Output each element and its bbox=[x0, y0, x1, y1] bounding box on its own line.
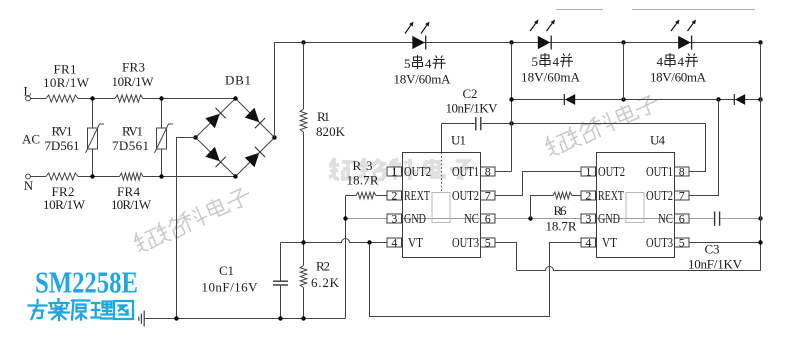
wire FR3 to bridge top bbox=[143, 98, 236, 100]
svg-text:GND: GND bbox=[404, 211, 426, 226]
watermark rotated lower-left 钲铭科电子 bbox=[131, 184, 254, 255]
wire x511 column bbox=[511, 43, 513, 172]
svg-text:10nF/1KV: 10nF/1KV bbox=[688, 257, 743, 272]
terminal L bbox=[26, 96, 31, 101]
svg-text:R1: R1 bbox=[317, 109, 330, 124]
svg-text:6.2K: 6.2K bbox=[311, 275, 340, 290]
node VT-R1R2 bbox=[301, 240, 305, 244]
svg-text:NC: NC bbox=[464, 211, 479, 226]
node RV1 bottom bbox=[90, 174, 94, 178]
svg-text:U4: U4 bbox=[650, 133, 666, 148]
svg-text:1: 1 bbox=[585, 165, 591, 179]
LED string 3 bbox=[671, 20, 696, 50]
svg-text:C1: C1 bbox=[219, 263, 234, 278]
wire N to FR2 bbox=[30, 176, 46, 178]
capacitor C1 bbox=[202, 243, 289, 319]
varistor RV1 left bbox=[45, 124, 105, 154]
wire x623 column bbox=[623, 43, 625, 100]
resistor FR3 bbox=[112, 60, 155, 103]
wire FR2 to FR4 bbox=[78, 176, 120, 178]
wire U1 pin5 down bbox=[495, 243, 517, 271]
node rail x511 bbox=[509, 40, 513, 44]
wire U1 pin8 to x511 bbox=[495, 171, 512, 173]
node RV2 top bbox=[159, 96, 163, 100]
wire varistor column 1 bbox=[92, 99, 94, 177]
node gnd bridge-column bbox=[174, 316, 178, 320]
node RV1 top bbox=[90, 96, 94, 100]
svg-text:OUT3: OUT3 bbox=[646, 235, 673, 250]
node GND-x345 bbox=[343, 216, 347, 220]
svg-text:RV1: RV1 bbox=[122, 124, 143, 139]
svg-text:4: 4 bbox=[585, 236, 591, 250]
watermark horizontal center 钲铭科电子 bbox=[329, 158, 474, 180]
wire OUT3 return y270 with hop bbox=[517, 267, 761, 271]
svg-text:10R/1W: 10R/1W bbox=[43, 75, 90, 90]
svg-text:5: 5 bbox=[532, 54, 539, 69]
svg-text:REXT: REXT bbox=[598, 188, 625, 203]
label string2 5串4并 bbox=[532, 53, 574, 69]
svg-text:C2: C2 bbox=[463, 86, 478, 101]
varistor RV1 right bbox=[112, 124, 173, 154]
wire right edge column bbox=[760, 43, 762, 271]
wire FR1 to FR3 bbox=[78, 98, 115, 100]
wire VT line with hop bbox=[281, 239, 388, 243]
svg-text:OUT1: OUT1 bbox=[646, 164, 673, 179]
faint top line 1 bbox=[556, 9, 603, 11]
wire L to FR1 bbox=[30, 98, 46, 100]
svg-text:4: 4 bbox=[391, 236, 397, 250]
wire ground rail bbox=[144, 318, 345, 320]
svg-text:2: 2 bbox=[391, 189, 397, 203]
svg-text:OUT2: OUT2 bbox=[646, 188, 673, 203]
resistor R6 bbox=[531, 192, 582, 233]
resistor FR2 bbox=[43, 173, 86, 212]
resistor R1 bbox=[300, 109, 345, 139]
node bypass right bbox=[758, 97, 762, 101]
svg-text:6: 6 bbox=[485, 212, 491, 226]
node bridge left bbox=[193, 135, 197, 139]
resistor FR1 bbox=[43, 62, 90, 103]
svg-text:3: 3 bbox=[391, 212, 397, 226]
node gnd R2 bbox=[301, 316, 305, 320]
node bypass x511 bbox=[509, 97, 513, 101]
svg-text:18.7R: 18.7R bbox=[347, 173, 379, 188]
wire U4 pin8 riser bbox=[690, 124, 706, 172]
node bypass x623 bbox=[621, 97, 625, 101]
LED string 2 bbox=[530, 20, 555, 50]
wire U4 pin7 riser bbox=[690, 100, 719, 196]
label string1 5串4并 bbox=[404, 55, 446, 71]
svg-text:7: 7 bbox=[679, 189, 685, 203]
svg-text:7: 7 bbox=[485, 189, 491, 203]
svg-text:5: 5 bbox=[404, 56, 411, 71]
wire GND column x345 bbox=[345, 196, 347, 319]
svg-text:5: 5 bbox=[485, 236, 491, 250]
terminal N bbox=[26, 174, 31, 179]
wire FR4 to bridge bottom bbox=[143, 176, 236, 178]
svg-text:8: 8 bbox=[679, 165, 685, 179]
capacitor C3 bbox=[688, 212, 743, 272]
svg-text:10nF/1KV: 10nF/1KV bbox=[446, 101, 499, 116]
watermark rotated upper-right 钲铭科电子 bbox=[542, 91, 662, 159]
svg-text:RV1: RV1 bbox=[52, 124, 73, 139]
svg-text:1: 1 bbox=[391, 165, 397, 179]
node rail R1 tap bbox=[301, 40, 305, 44]
svg-text:18V/60mA: 18V/60mA bbox=[394, 72, 452, 87]
wire DC+ riser and top rail bbox=[275, 43, 761, 138]
wire U1 pin7 to U4 pin1 bbox=[495, 172, 581, 196]
wire C2 left into U1 solid bbox=[441, 124, 443, 153]
faint top line 2 bbox=[632, 9, 755, 11]
svg-text:10R/1W: 10R/1W bbox=[111, 197, 152, 212]
svg-text:7D561: 7D561 bbox=[45, 138, 80, 153]
title 方案原理图 bbox=[29, 299, 134, 320]
svg-text:FR3: FR3 bbox=[122, 60, 145, 75]
svg-text:SM2258E: SM2258E bbox=[35, 265, 138, 300]
svg-text:2: 2 bbox=[585, 189, 591, 203]
svg-text:OUT3: OUT3 bbox=[452, 235, 479, 250]
svg-text:5: 5 bbox=[679, 236, 685, 250]
node bypass x718 bbox=[716, 97, 720, 101]
wire bypass diode row bbox=[512, 99, 761, 101]
svg-text:OUT2: OUT2 bbox=[452, 188, 479, 203]
resistor FR4 bbox=[111, 173, 152, 212]
svg-text:8: 8 bbox=[485, 165, 491, 179]
bypass diode D1 points left bbox=[564, 94, 575, 105]
svg-text:OUT2: OUT2 bbox=[598, 164, 625, 179]
svg-text:U1: U1 bbox=[451, 133, 466, 148]
svg-text:N: N bbox=[24, 178, 34, 193]
node GND-right bbox=[758, 216, 762, 220]
node RV2 bottom bbox=[159, 174, 163, 178]
svg-text:10R/1W: 10R/1W bbox=[43, 197, 86, 212]
svg-text:3: 3 bbox=[585, 212, 591, 226]
svg-text:NC: NC bbox=[658, 211, 673, 226]
wire R2 to ground rail bbox=[303, 288, 305, 319]
wire VT net U1 to U4 pin4 bbox=[370, 243, 582, 317]
svg-text:820K: 820K bbox=[316, 124, 346, 139]
wire R1 to VT line bbox=[303, 132, 305, 266]
svg-text:6: 6 bbox=[679, 212, 685, 226]
wire C2 into inner block dotted bbox=[441, 153, 443, 193]
node rail right corner bbox=[758, 40, 762, 44]
node C2-x511 bbox=[509, 121, 513, 125]
svg-text:REXT: REXT bbox=[404, 188, 431, 203]
svg-text:R6: R6 bbox=[554, 203, 568, 218]
svg-text:10R/1W: 10R/1W bbox=[112, 74, 155, 89]
svg-text:4: 4 bbox=[657, 54, 664, 69]
wire varistor column 2 bbox=[161, 99, 163, 177]
svg-text:18.7R: 18.7R bbox=[546, 219, 577, 234]
LED driver IC U4 bbox=[581, 133, 689, 258]
node U4 pin5 right bbox=[758, 240, 762, 244]
wire R1 column upper bbox=[303, 43, 305, 110]
svg-text:VT: VT bbox=[408, 235, 424, 250]
svg-text:OUT2: OUT2 bbox=[404, 164, 431, 179]
svg-text:4: 4 bbox=[425, 56, 432, 71]
bridge rectifier DB1 bbox=[196, 73, 275, 177]
svg-text:18V/60mA: 18V/60mA bbox=[650, 70, 707, 85]
bypass diode D2 points left bbox=[734, 94, 745, 105]
svg-text:AC: AC bbox=[22, 132, 40, 147]
LED driver IC U1 bbox=[387, 133, 495, 258]
svg-text:10nF/16V: 10nF/16V bbox=[202, 280, 259, 295]
svg-text:DB1: DB1 bbox=[225, 73, 251, 88]
wire U4 pin5 to right column bbox=[690, 242, 761, 244]
label string3 4串4并 bbox=[657, 53, 699, 69]
svg-text:7D561: 7D561 bbox=[112, 138, 149, 153]
svg-text:18V/60mA: 18V/60mA bbox=[521, 70, 581, 85]
node bridge bottom bbox=[233, 174, 237, 178]
node bridge right bbox=[272, 135, 276, 139]
svg-text:R2: R2 bbox=[316, 259, 330, 274]
ground symbol bbox=[139, 311, 144, 327]
resistor R2 bbox=[300, 259, 339, 291]
svg-text:4: 4 bbox=[553, 54, 560, 69]
svg-text:VT: VT bbox=[602, 235, 618, 250]
svg-text:4: 4 bbox=[678, 54, 685, 69]
capacitor C2 bbox=[442, 86, 706, 130]
wire bridge left vertex to ground rail bbox=[177, 138, 196, 319]
LED string 1 bbox=[405, 22, 430, 50]
node VT-down bbox=[367, 240, 371, 244]
svg-text:GND: GND bbox=[598, 211, 620, 226]
svg-text:C3: C3 bbox=[705, 242, 720, 257]
svg-text:L: L bbox=[24, 84, 32, 99]
resistor R3 bbox=[346, 158, 388, 199]
node rail x623 bbox=[621, 40, 625, 44]
node GND-R6 bbox=[528, 216, 532, 220]
wire GND net gray bbox=[346, 218, 714, 220]
node gnd C1 bbox=[278, 316, 282, 320]
svg-text:OUT1: OUT1 bbox=[452, 164, 479, 179]
node bridge top bbox=[233, 96, 237, 100]
